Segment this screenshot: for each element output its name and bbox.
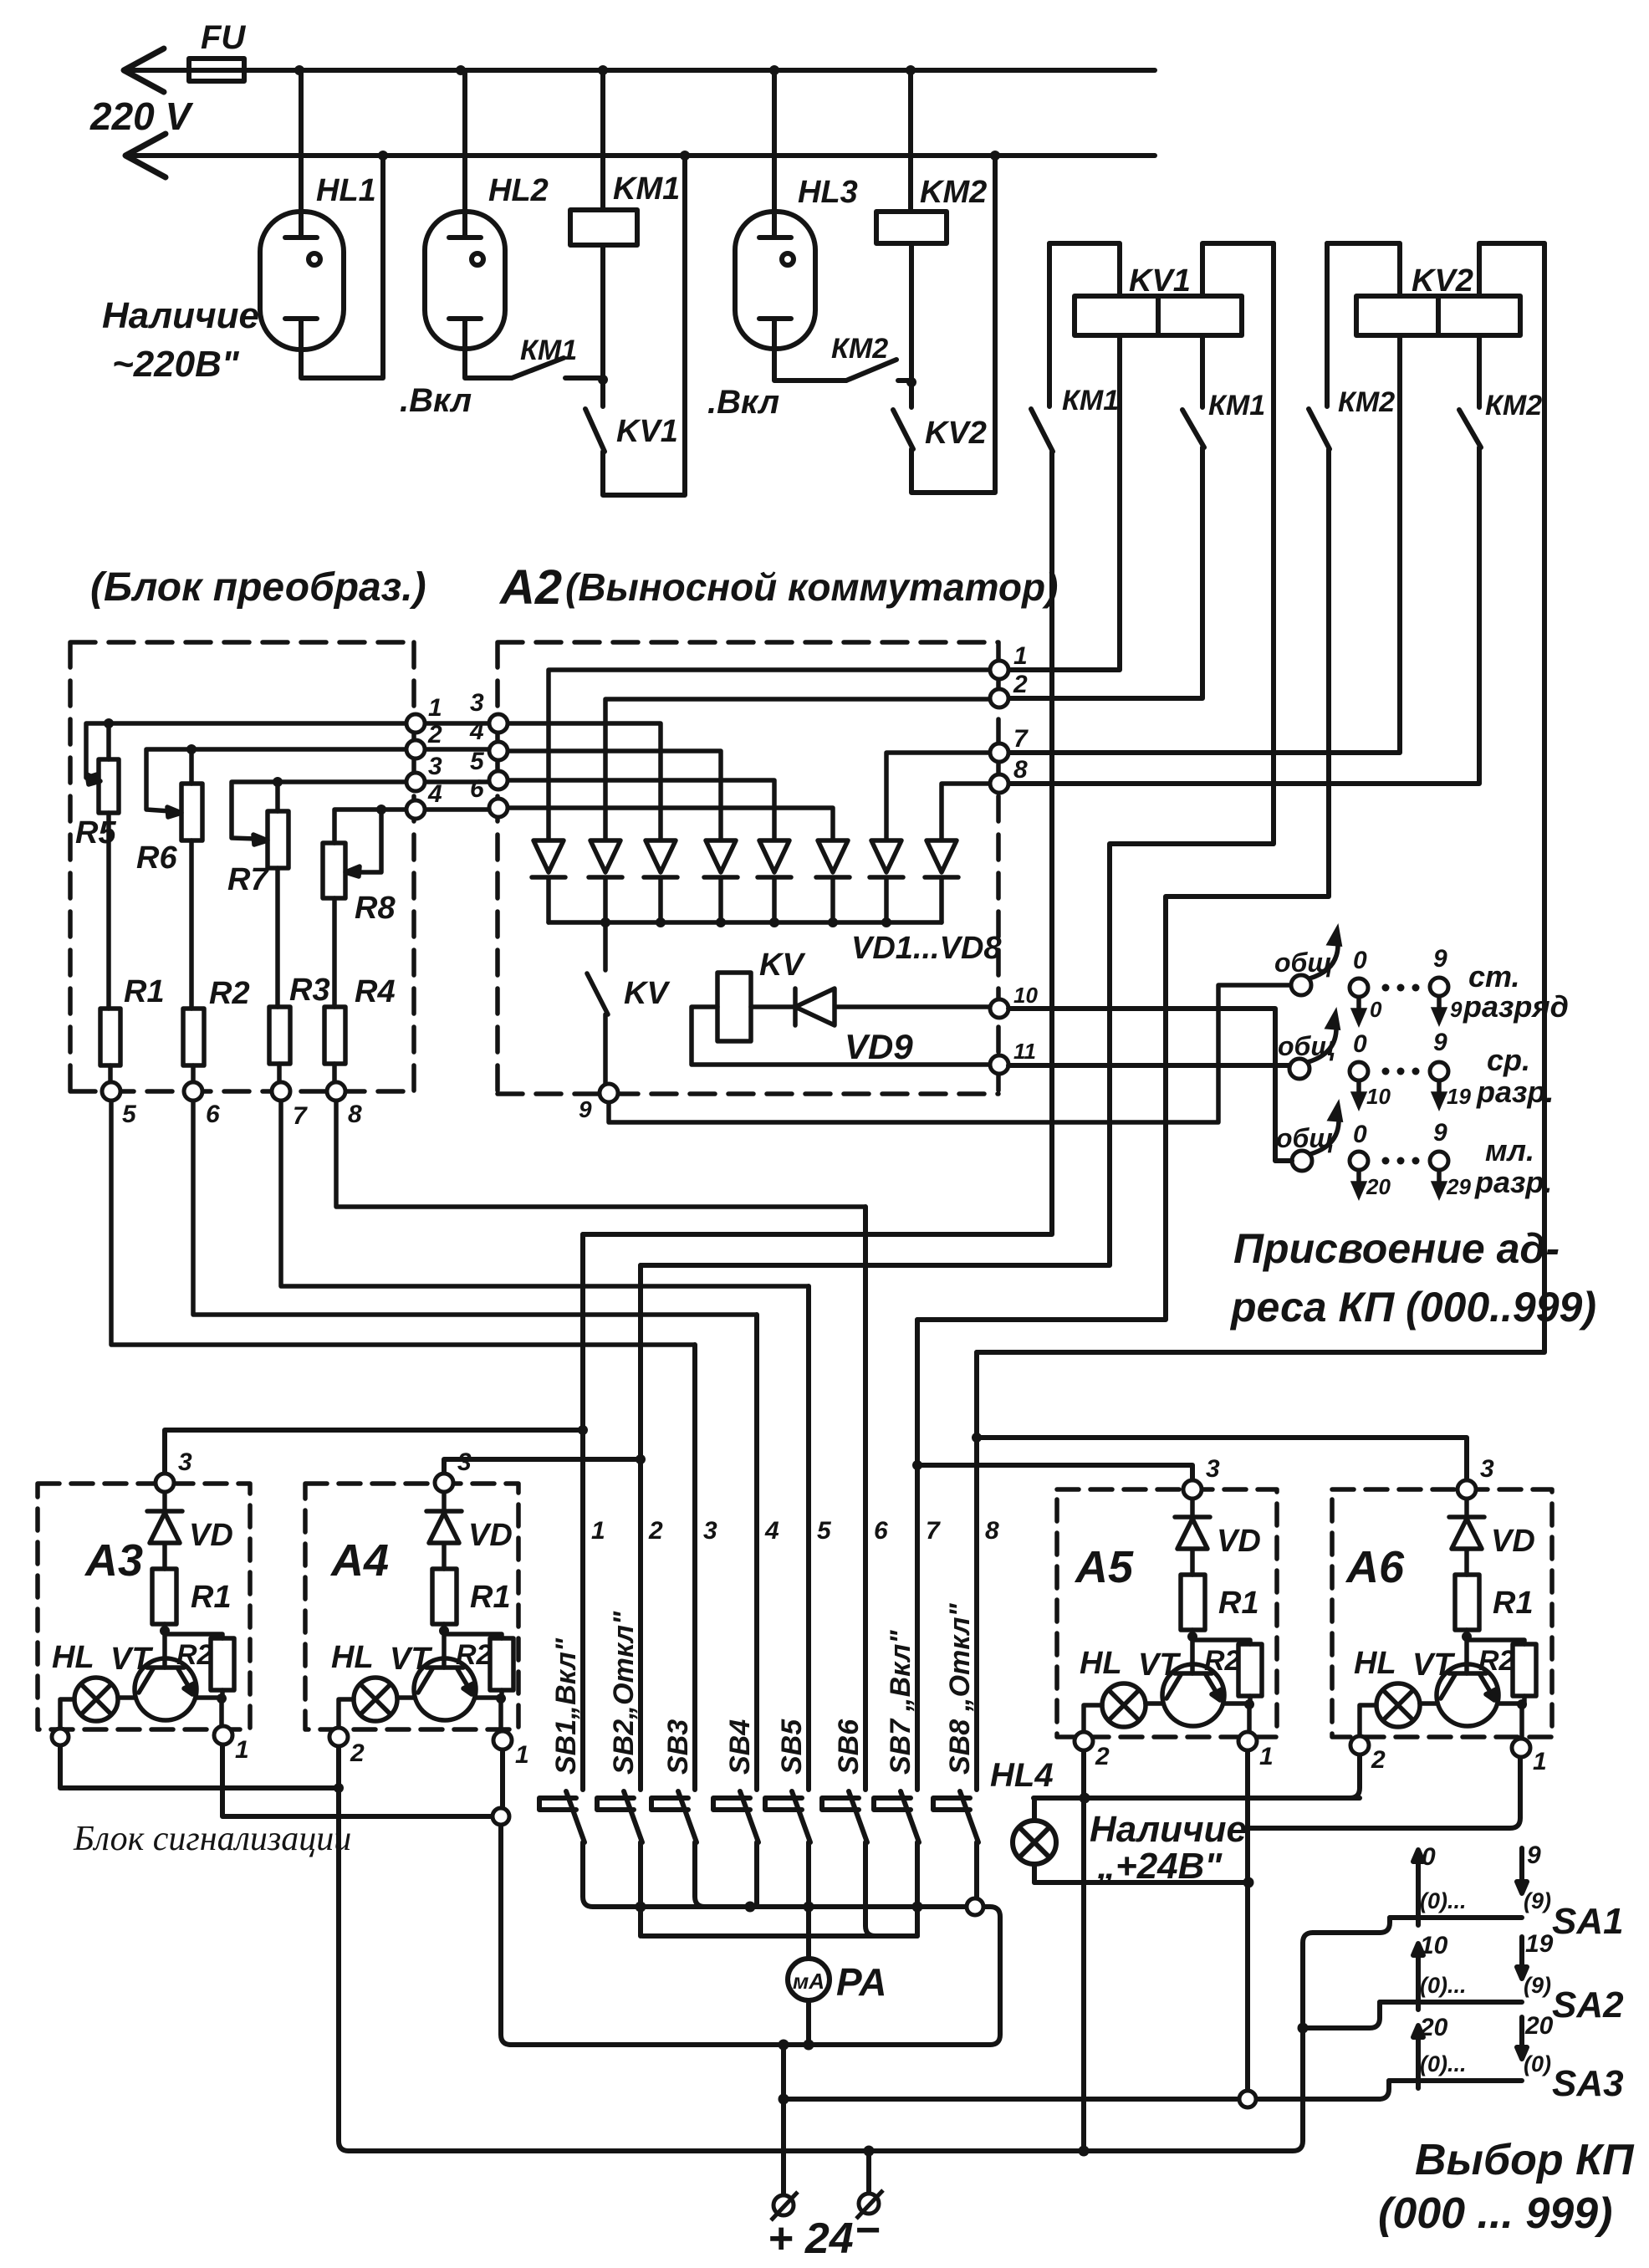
wire pin1 to pin3 [425,721,489,726]
svg-text:9: 9 [579,1096,592,1122]
wire terminal9 to obshch1 [609,985,1291,1122]
resistor R2 (A3) [165,1634,222,1638]
svg-text:SB6: SB6 [833,1719,865,1775]
svg-text:реса КП (000..999): реса КП (000..999) [1229,1284,1596,1331]
svg-text:10: 10 [1013,983,1038,1008]
svg-text:20: 20 [1366,1174,1391,1199]
svg-text:~220В": ~220В" [112,344,240,385]
resistor R1 (A4) [432,1569,457,1624]
terminal minus [859,2194,879,2214]
svg-text:КМ1: КМ1 [1062,385,1119,416]
svg-text:1: 1 [515,1741,529,1769]
svg-text:2: 2 [427,721,442,748]
svg-text:R1: R1 [124,974,165,1009]
svg-text:VD: VD [189,1518,233,1553]
svg-text:7: 7 [1013,725,1029,753]
wire A3 pin3 feed [165,1430,583,1474]
potentiometer R6 [146,749,406,811]
svg-text:1: 1 [591,1517,605,1545]
relay KV2 coil [1356,296,1520,335]
svg-text:KV2: KV2 [925,416,987,451]
svg-text:29: 29 [1446,1174,1471,1199]
wire terminal7 to SB5 line [281,1101,809,1286]
svg-text:−: − [855,2206,880,2255]
lamp HL3 [772,70,777,238]
svg-text:1: 1 [1533,1748,1547,1775]
svg-text:(0): (0) [1524,2051,1551,2076]
svg-text:HL4: HL4 [990,1757,1054,1794]
svg-text:3: 3 [428,753,442,780]
svg-text:VD: VD [1217,1524,1261,1559]
resistor R3 [269,1007,290,1064]
svg-text:19: 19 [1447,1084,1471,1109]
svg-text:А3: А3 [84,1535,143,1586]
svg-text:(Выносной коммутатор): (Выносной коммутатор) [565,565,1058,609]
wire A3 left terminal to A4 pin2 line [60,1745,339,1788]
wire SB6 line (from terminal 8) [863,1207,868,1790]
switch SA1 arrows [1413,1848,1527,1909]
wire terminal5 to SB3 line [111,1101,695,1345]
resistor R1 (A3) [152,1569,176,1624]
svg-text:19: 19 [1525,1930,1554,1958]
svg-text:SB5: SB5 [776,1719,808,1775]
svg-text:+ 24: + 24 [768,2214,854,2263]
junction dots middle [104,718,891,927]
diode VD (A5) [1175,1499,1210,1575]
wire A5 pin3 feed [917,1465,1192,1480]
obshch switch group 1 (st. razryad) [1309,930,1444,1022]
svg-text:ср.: ср. [1487,1043,1530,1077]
svg-text:SB3: SB3 [662,1719,694,1775]
wire pin3 to pin5 [425,779,489,784]
svg-text:1: 1 [235,1736,249,1764]
svg-text:R2: R2 [1204,1645,1241,1677]
relay KV1 coil [1075,296,1242,335]
svg-text:HL1: HL1 [316,173,376,208]
svg-text:разряд: разряд [1463,989,1569,1024]
svg-text:R4: R4 [355,974,396,1009]
svg-text:VT: VT [390,1642,432,1677]
svg-text:0: 0 [1370,997,1382,1022]
dashed box A2 [498,642,998,1094]
terminal pin 9 [600,1084,618,1102]
transistor VT (A3) [135,1658,197,1720]
svg-text:SA1: SA1 [1552,1901,1624,1942]
svg-text:HL3: HL3 [798,175,858,210]
svg-text:VD: VD [1491,1524,1535,1559]
svg-text:(9): (9) [1524,1888,1551,1913]
wire A5 pin2 drop to H4 [1081,1750,1086,2151]
contact KV1 [585,156,685,495]
svg-text:6: 6 [874,1517,888,1545]
svg-text:9: 9 [1527,1841,1541,1869]
svg-text:ст.: ст. [1468,959,1520,994]
svg-text:Присвоение ад-: Присвоение ад- [1233,1225,1560,1272]
pushbutton SB3 [651,1791,705,1907]
svg-text:(000 ... 999): (000 ... 999) [1378,2189,1612,2238]
resistor R2 (A4) [444,1634,502,1638]
contact KM1 (right, to A2 pin 2) [1008,335,1204,698]
svg-text:8: 8 [985,1517,999,1545]
svg-text:R1: R1 [1493,1586,1534,1621]
svg-text:HL: HL [1080,1646,1122,1681]
connector circle A4 pin1 wire [493,1808,509,1825]
pushbutton SB8 [933,1791,978,1898]
svg-text:2: 2 [1371,1746,1386,1774]
diode VD1 [532,670,990,922]
diode VD6 [508,808,850,922]
junction dots bottom [334,1425,1309,2157]
svg-text:KM2: KM2 [920,175,987,210]
lamp HL (A4) [354,1678,397,1721]
svg-text:VD9: VD9 [845,1027,913,1066]
svg-text:0: 0 [1353,947,1367,974]
lamp HL2 [462,70,467,238]
svg-text:20: 20 [1524,2012,1554,2040]
wire bus H5 (+ to SA3) [784,2045,1389,2195]
diode VD (A6) [1449,1499,1484,1575]
relay coil KV in A2 [717,973,751,1041]
svg-text:R1: R1 [470,1580,511,1615]
svg-text:1: 1 [1013,642,1028,670]
svg-text:HL: HL [52,1640,94,1675]
obshch switch group 3 (ml. razr.) [1310,1106,1444,1195]
svg-text:.Вкл: .Вкл [400,382,472,419]
wire KV1 bracket left [1049,243,1120,296]
svg-text:3: 3 [470,689,484,717]
svg-text:5: 5 [817,1517,832,1545]
svg-text:мА: мА [793,1969,824,1994]
svg-text:общ: общ [1278,1031,1335,1061]
svg-text:VT: VT [1138,1647,1181,1683]
resistor R1 [100,1009,120,1065]
svg-text:Наличие: Наличие [1090,1809,1247,1850]
svg-text:КМ2: КМ2 [1338,386,1395,418]
svg-text:Блок сигнализации: Блок сигнализации [73,1820,351,1858]
switch SA2 row [1380,1995,1522,2010]
contact KM2 (left, feeds SB7 line) [917,243,1330,1320]
svg-text:220 V: 220 V [89,94,194,138]
wire SB3 line (from terminal 5) [692,1345,697,1790]
wire SA2 branch [1303,2002,1380,2028]
switch SA2 arrows [1413,1937,1527,1994]
diode VD9 [795,988,990,1025]
wire KV2 bracket left [1327,243,1400,296]
transistor VT (A6) [1437,1664,1498,1726]
wire HL4 bottom line [1034,1880,1248,1885]
transistor VT (A4) [414,1658,476,1720]
svg-text:KM1: KM1 [613,171,680,207]
terminal pins A2 right 1,2,7,8,10,11 [990,661,1008,679]
junction dots top section [294,65,1000,387]
svg-text:общ: общ [1274,948,1332,978]
transistor VT (A5) [1162,1664,1224,1726]
svg-text:10: 10 [1420,1932,1448,1959]
diode VD2 [589,699,990,922]
svg-text:R5: R5 [75,815,116,850]
resistor R1 (A5) [1181,1575,1205,1630]
svg-text:8: 8 [348,1101,362,1128]
wire minus drop [866,2151,871,2193]
wire collector bus L1 [593,1907,1000,2045]
svg-text:VD1...VD8: VD1...VD8 [851,931,1002,966]
wire KV2 right to SB8 line [977,243,1544,1352]
svg-text:SA3: SA3 [1552,2063,1624,2104]
svg-text:R2: R2 [209,976,250,1011]
svg-text:FU: FU [201,19,246,56]
fuse FU [189,59,244,81]
svg-text:R2: R2 [176,1639,213,1671]
lamp HL (A3) [74,1678,118,1721]
contactor coil KM2 [908,70,913,212]
switch SA1 row [1390,1910,1522,1925]
svg-text:R1: R1 [191,1580,232,1615]
pushbutton SB2 [597,1791,642,1936]
contact KM2 (Vkl switch of HL3) [846,360,908,381]
svg-text:4: 4 [427,780,442,808]
svg-text:0: 0 [1422,1843,1436,1871]
block A6 (signal cell) [1332,1489,1552,1739]
svg-text:KV: KV [624,976,670,1011]
svg-text:10: 10 [1366,1084,1391,1109]
potentiometer R5 [86,723,406,778]
svg-text:КМ2: КМ2 [831,333,888,365]
pushbutton SB5 [765,1791,810,1959]
dashed box Blok preobraz [70,642,414,1091]
svg-text:1: 1 [428,694,442,722]
wire SA1 step [1313,1918,1390,1933]
diode VD (A3) [147,1492,182,1569]
resistor R2 (A6) [1467,1640,1524,1644]
svg-text:6: 6 [470,775,484,803]
svg-text:9: 9 [1433,1029,1447,1056]
contact KV in A2 [587,922,608,1084]
svg-text:разр.: разр. [1476,1075,1554,1109]
wire A6 pin1 to A5 pin1 [1248,1757,1520,1828]
svg-text:8: 8 [1013,756,1028,784]
svg-text:2: 2 [1095,1743,1110,1770]
wire SB2 line (from KV1 right) [638,1265,643,1790]
svg-text:11: 11 [1013,1039,1036,1064]
wire SB8 line (from KV2 right) [974,1352,979,1790]
svg-text:разр.: разр. [1474,1165,1552,1199]
potentiometer R8 [334,810,406,872]
svg-text:HL: HL [331,1640,374,1675]
lamp HL4 [1013,1821,1056,1864]
svg-text:Выбор КП: Выбор КП [1415,2136,1635,2184]
terminal pins A2 3-6 [489,714,508,733]
wire SB5 line (from terminal 7) [806,1286,811,1790]
svg-text:R6: R6 [136,840,177,876]
svg-text:SB7 „Вкл": SB7 „Вкл" [885,1630,916,1775]
contact KM1 (left, feeds SB1 line) [583,243,1053,1234]
svg-text:VT: VT [110,1642,153,1677]
wire A2 pin11 to obshch2 [1008,1063,1289,1068]
lamp HL1 [299,70,304,238]
wire KV1 coil left to A2 pin 1 [1008,335,1120,670]
wire bottom bus L2 220V [125,153,1155,158]
ammeter PA [788,1959,830,2000]
svg-text:(Блок преобраз.): (Блок преобраз.) [90,565,426,610]
svg-text:9: 9 [1433,1119,1447,1147]
svg-text:PA: PA [836,1960,887,2004]
wire pin2 to pin4 [425,747,489,752]
wire A6 pin3 feed [977,1438,1467,1480]
wire bus H4 (minus) [349,1933,1313,2151]
switch SA3 arrows [1413,2017,1527,2072]
contact KV2 [893,156,995,493]
svg-text:А2: А2 [498,560,562,615]
diode VD8 [925,784,990,922]
svg-text:3: 3 [703,1517,717,1545]
wire HL4 top line [1034,1795,1360,1801]
lamp HL (A5) [1102,1683,1146,1727]
potentiometer R7 [232,782,406,839]
svg-text:4: 4 [764,1517,779,1545]
contact KM2 (right, to A2 pin 8) [1008,335,1481,784]
svg-text:R7: R7 [227,862,269,897]
wire A2 pin10 to obshch3 [1008,1009,1292,1161]
block A3 (signal cell) [38,1484,250,1729]
wire KV2 bracket right [1479,243,1544,296]
svg-text:КМ2: КМ2 [1485,390,1542,421]
block A5 (signal cell) [1057,1489,1277,1737]
wire KV1 right to SB2 line [641,243,1274,1265]
svg-text:R2: R2 [456,1639,493,1671]
svg-text:6: 6 [206,1101,220,1128]
connector circle A5 pin1 on H5 [1239,2091,1256,2107]
wire A4 pin1 drop [501,1750,511,2045]
switch SA3 row [1389,2073,1522,2088]
svg-text:KV2: KV2 [1412,263,1473,299]
resistor R2 [183,1009,204,1065]
svg-text:1: 1 [1259,1743,1274,1770]
svg-text:Наличие: Наличие [102,295,259,336]
svg-text:9: 9 [1433,945,1447,973]
pushbutton SB1 [539,1791,593,1907]
contactor coil KM1 [600,70,605,210]
resistor R4 [324,1007,345,1064]
svg-text:3: 3 [1206,1455,1220,1483]
wire SB7 line (from KM2 contact) [915,1320,920,1790]
diode VD (A4) [426,1492,462,1569]
svg-text:2: 2 [1013,671,1028,698]
wire terminal6 to SB4 line [193,1101,757,1315]
svg-text:7: 7 [293,1102,308,1130]
svg-text:VT: VT [1412,1647,1455,1683]
wire A4 pin2 drop to minus bus H4 [339,1746,349,2151]
wire A5 pin1 drop [1245,1750,1250,2090]
wire SB1 line (from KM1 contact) [580,1234,585,1790]
wire top bus L1 220V [124,68,1155,73]
diode VD5 [508,780,791,922]
lamp HL (A6) [1376,1683,1420,1727]
svg-text:R1: R1 [1218,1586,1259,1621]
svg-text:HL: HL [1354,1646,1396,1681]
diode VD4 [508,751,738,922]
pushbutton SB4 [713,1791,758,1907]
svg-text:VD: VD [468,1518,513,1553]
terminal pins 5-8 [102,1082,120,1101]
svg-text:(9): (9) [1524,1973,1551,1998]
wire bus H3 (+24 feed) [510,2042,990,2047]
svg-text:0: 0 [1353,1121,1367,1148]
svg-text:7: 7 [926,1517,941,1545]
contact KM1 (Vkl switch of HL2) [512,358,600,378]
svg-text:KV1: KV1 [1129,263,1191,299]
diode VD7 [870,753,990,922]
svg-text:SB1„Вкл": SB1„Вкл" [550,1637,582,1775]
svg-text:4: 4 [469,718,484,745]
svg-text:„+24В": „+24В" [1096,1846,1223,1887]
wire A4 pin3 feed [444,1459,641,1474]
svg-text:0: 0 [1353,1030,1367,1058]
svg-text:3: 3 [1480,1455,1494,1483]
wire collector bus L2 [642,1933,917,1939]
svg-text:SA2: SA2 [1552,1984,1624,2025]
svg-text:R8: R8 [355,891,396,926]
resistor R2 (A5) [1192,1640,1250,1644]
wire diode cathode bus [549,920,942,925]
wire A6 pin2 drop [1350,1755,1360,1798]
svg-text:R2: R2 [1478,1645,1515,1677]
wire terminal8 to SB6 line [336,1101,865,1207]
svg-text:KV1: KV1 [616,414,678,449]
svg-text:KV: KV [759,948,805,983]
diode VD3 [508,723,677,922]
pushbutton SB7 [874,1791,919,1936]
svg-text:5: 5 [470,748,485,775]
svg-text:2: 2 [350,1739,365,1767]
svg-text:общ: общ [1276,1123,1334,1153]
wire pin4 to pin6 [425,807,489,812]
svg-text:SB8 „Откл": SB8 „Откл" [944,1603,976,1775]
wire KV2 coil left to A2 pin 7 [1008,335,1400,753]
svg-text:(0)...: (0)... [1420,2051,1467,2076]
svg-text:(0)...: (0)... [1420,1888,1467,1913]
resistor R1 (A6) [1455,1575,1479,1630]
svg-text:А4: А4 [329,1535,389,1586]
svg-text:9: 9 [1450,997,1463,1022]
svg-text:2: 2 [648,1517,663,1545]
block A4 (signal cell) [305,1484,518,1731]
svg-text:SB4: SB4 [724,1719,756,1775]
svg-text:.Вкл: .Вкл [707,384,779,421]
svg-text:(0)...: (0)... [1420,1973,1467,1998]
wire A3 pin1 to A4 pin1 connector [222,1744,492,1816]
svg-text:А5: А5 [1074,1542,1134,1592]
svg-text:5: 5 [122,1101,137,1128]
svg-text:КМ1: КМ1 [520,335,577,366]
svg-text:мл.: мл. [1485,1133,1534,1167]
svg-text:20: 20 [1419,2014,1448,2041]
svg-text:КМ1: КМ1 [1208,390,1265,421]
svg-text:HL2: HL2 [488,173,549,208]
svg-text:А6: А6 [1345,1542,1405,1592]
svg-text:R3: R3 [289,973,330,1008]
svg-text:3: 3 [457,1448,472,1476]
wire KV1 bracket right [1202,243,1274,296]
obshch switch group 2 (sr. razr.) [1308,1014,1444,1106]
terminal pins Blok preobraz 1-4 [102,661,1008,1102]
wire SB4 line (from terminal 6) [754,1315,759,1790]
terminal +24 [771,2190,883,2220]
pushbutton SB6 [822,1791,876,1936]
svg-text:SB2„Откл": SB2„Откл" [608,1611,640,1775]
svg-text:3: 3 [178,1448,192,1476]
connector circle SB8 on L1 [967,1898,983,1915]
